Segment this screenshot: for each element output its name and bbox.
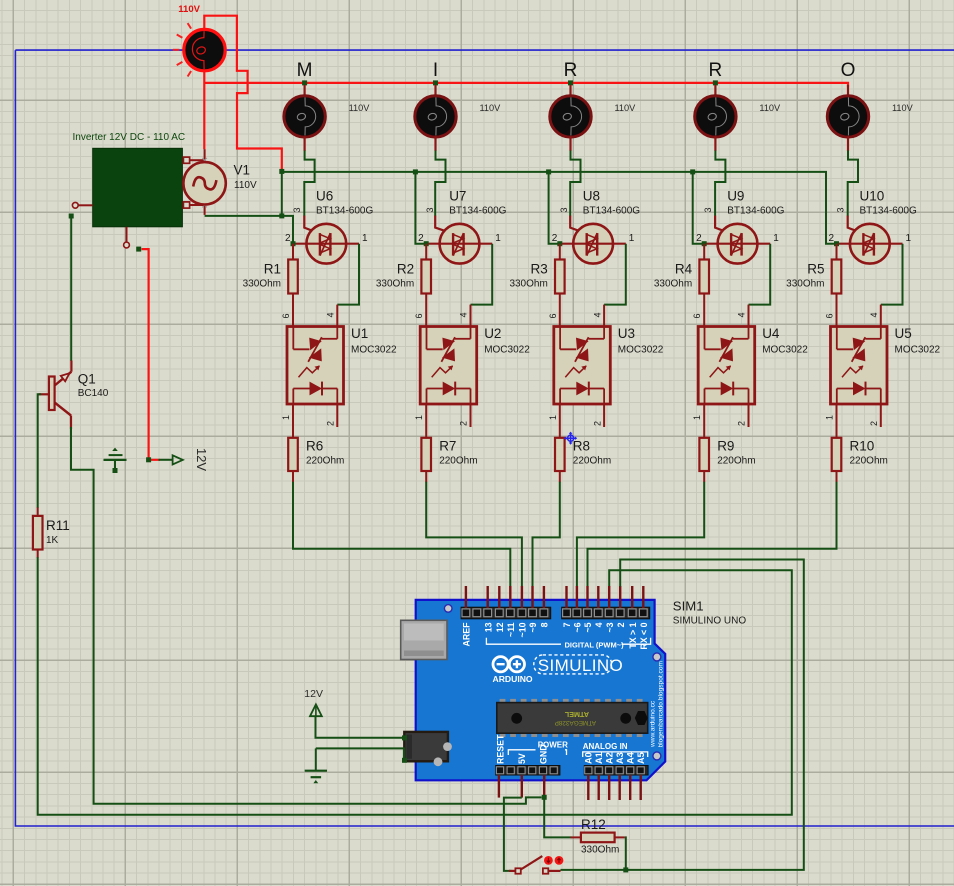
svg-text:220Ohm: 220Ohm [573, 456, 611, 467]
resistor R1 330Ohm [292, 244, 294, 260]
U4 pin4 lead [748, 305, 750, 327]
svg-text:R: R [709, 60, 723, 81]
svg-text:SIM1: SIM1 [673, 599, 704, 614]
optocoupler U1 MOC3022 [287, 327, 344, 405]
svg-text:330Ohm: 330Ohm [654, 279, 692, 290]
svg-text:3: 3 [559, 207, 569, 212]
svg-text:330Ohm: 330Ohm [376, 279, 414, 290]
svg-text:R8: R8 [573, 439, 590, 454]
V1 pin x-markers [202, 158, 207, 208]
junction GND/power rail [542, 795, 547, 800]
usb connector [401, 620, 447, 659]
svg-text:4: 4 [869, 312, 879, 317]
analog header [584, 766, 648, 776]
svg-text:ARDUINO: ARDUINO [493, 674, 533, 684]
wire: U10 pin1 to U5 pin4 [881, 244, 903, 305]
arduino board SIM1 outline [416, 600, 666, 780]
svg-text:R6: R6 [306, 439, 323, 454]
label DIGITAL (PWM~) [486, 638, 650, 644]
svg-text:330Ohm: 330Ohm [581, 845, 619, 856]
U2 pin2 stub [470, 404, 472, 427]
svg-text:12: 12 [495, 622, 505, 632]
wire red: 110V AC bus [204, 83, 848, 88]
resistor R3 330Ohm [559, 244, 561, 260]
wire: R6 to Arduino digital pin [293, 482, 510, 587]
svg-text:www.arduino.cc: www.arduino.cc [649, 700, 656, 748]
lamp R bottom lead [569, 137, 571, 152]
svg-text:330Ohm: 330Ohm [509, 279, 547, 290]
svg-text:1K: 1K [46, 535, 59, 546]
svg-text:R: R [564, 60, 578, 81]
svg-text:220Ohm: 220Ohm [850, 456, 888, 467]
analog pin stubs [587, 775, 589, 800]
wire: R7 to Arduino digital pin [426, 482, 522, 587]
svg-text:2: 2 [869, 421, 879, 426]
svg-text:4: 4 [459, 312, 469, 317]
svg-text:2: 2 [616, 622, 626, 627]
svg-text:U7: U7 [449, 189, 466, 204]
wire: Q1 base to R11 [38, 394, 41, 508]
lamp R (110V) [695, 96, 736, 137]
wire: 12V to jack [316, 716, 403, 738]
junction U7 pin2 / R2 [424, 241, 429, 246]
wire: R8 to Arduino digital pin [533, 482, 560, 587]
svg-text:SIMULINO: SIMULINO [538, 656, 623, 675]
svg-text:MOC3022: MOC3022 [895, 345, 941, 356]
svg-text:A0: A0 [584, 752, 594, 764]
wire red: inverter 12V feed [142, 249, 161, 460]
svg-text:3: 3 [703, 207, 713, 212]
ground symbol (arduino supply) [315, 748, 317, 770]
svg-text:220Ohm: 220Ohm [439, 456, 477, 467]
wire red: lamp L1 bottom to AC bus / V1 [203, 69, 205, 149]
junction gate bus tap ch4 [690, 169, 695, 174]
wire: gate bus tap to U9 pin2 [693, 172, 705, 244]
wire: U6 pin1 to U1 pin4 [337, 244, 359, 305]
power terminal 12V (arduino) [310, 704, 322, 716]
lamp I (110V) [415, 96, 456, 137]
U2 pin4 lead [470, 305, 472, 327]
svg-text:6: 6 [825, 313, 835, 318]
svg-text:2: 2 [418, 233, 424, 244]
svg-text:330Ohm: 330Ohm [786, 279, 824, 290]
svg-text:~3: ~3 [605, 622, 615, 632]
wire: ground to jack pin2 [316, 748, 404, 759]
wire: R9 to Arduino digital pin [577, 482, 704, 587]
svg-text:2: 2 [459, 421, 469, 426]
svg-text:220Ohm: 220Ohm [306, 456, 344, 467]
lamp R bottom lead [714, 137, 716, 152]
lamp I top lead [434, 85, 436, 96]
resistor R6 220Ohm [292, 404, 294, 438]
V1 AC source (110V) [183, 162, 225, 204]
svg-text:110V: 110V [349, 103, 371, 113]
digital header left (AREF..8) [461, 607, 551, 619]
cursor crosshair marker [564, 432, 577, 445]
svg-text:BC140: BC140 [78, 388, 109, 399]
lamp O (110V) [827, 96, 868, 137]
resistor R8 220Ohm [559, 404, 561, 438]
lamp R (110V) [550, 96, 591, 137]
svg-text:R1: R1 [264, 262, 281, 277]
resistor R9 220Ohm [703, 404, 705, 438]
svg-text:V1: V1 [234, 163, 251, 178]
svg-text:ANALOG IN: ANALOG IN [583, 742, 628, 751]
svg-text:4: 4 [594, 622, 604, 627]
svg-text:MOC3022: MOC3022 [351, 345, 397, 356]
svg-text:GND: GND [539, 744, 549, 764]
wire: U9 pin1 to U4 pin4 [749, 244, 771, 305]
svg-text:AREF: AREF [462, 622, 472, 647]
svg-text:U3: U3 [618, 326, 635, 341]
svg-text:110V: 110V [234, 180, 257, 191]
resistor R4 330Ohm [703, 244, 705, 260]
lamp R top lead [569, 85, 571, 96]
wire: lamp R to triac U8 pin3 (jog over gate bus) [570, 151, 580, 217]
svg-text:8: 8 [540, 622, 550, 627]
junction U10 pin2 / R5 [834, 241, 839, 246]
lamp O top lead [847, 85, 849, 96]
optocoupler U4 MOC3022 [698, 327, 755, 405]
svg-text:R3: R3 [531, 262, 548, 277]
junction AC bus / lamp M [302, 80, 307, 85]
svg-text:~11: ~11 [506, 622, 516, 637]
svg-text:2: 2 [828, 233, 834, 244]
resistor R11 1K [37, 508, 39, 516]
lamp R top lead [714, 85, 716, 96]
resistor R12 330Ohm (horizontal) [571, 836, 581, 838]
svg-text:~5: ~5 [583, 622, 593, 632]
svg-text:O: O [841, 60, 856, 81]
svg-text:220Ohm: 220Ohm [717, 456, 755, 467]
svg-text:M: M [297, 60, 313, 81]
svg-text:DIGITAL (PWM~): DIGITAL (PWM~) [565, 640, 625, 649]
switch SW1 [509, 870, 515, 872]
wire: gate bus tap to U8 pin2 [549, 172, 560, 244]
label ANALOG IN + bracket [583, 752, 648, 757]
svg-text:~6: ~6 [573, 622, 583, 632]
inverter output pin squares to V1 [183, 157, 189, 163]
resistor R2 330Ohm [425, 244, 427, 260]
svg-text:U2: U2 [484, 326, 501, 341]
jack terminal squares [402, 735, 407, 740]
svg-text:U4: U4 [762, 326, 780, 341]
wire: GND rail to R12 [544, 797, 571, 837]
wire: R11 bottom rail [38, 557, 792, 814]
triac U9 BT134-600G [704, 224, 770, 264]
wire: gate bus tap to U7 pin2 [415, 172, 426, 244]
svg-text:ATMEGA328P: ATMEGA328P [555, 719, 596, 726]
lamp L1 (lit, 110V) [184, 29, 225, 70]
svg-text:BT134-600G: BT134-600G [316, 206, 373, 217]
svg-text:BT134-600G: BT134-600G [449, 206, 506, 217]
wire: lamp R to triac U9 pin3 (jog over gate bus) [715, 151, 725, 217]
svg-text:6: 6 [281, 313, 291, 318]
digital pin stubs [465, 586, 467, 608]
wire red: lamp L1 top loop to V1 feed [204, 16, 281, 170]
lamp M bottom lead [304, 137, 306, 152]
U3 pin2 stub [603, 404, 605, 427]
inverter left pin (unconnected circle) [78, 204, 93, 206]
arduino mounting hole right-top [653, 653, 661, 661]
wire: V1 bottom to gate-bus riser [205, 171, 282, 216]
svg-text:12V: 12V [194, 448, 209, 471]
junction AC bus / lamp R [568, 80, 573, 85]
inverter bottom pin (unconnected circle) [126, 227, 128, 242]
svg-text:1: 1 [825, 415, 835, 420]
dc supply symbol (inverted ground) [112, 448, 118, 451]
svg-text:~9: ~9 [528, 622, 538, 632]
resistor R5 330Ohm [836, 244, 838, 260]
svg-text:R4: R4 [675, 262, 693, 277]
svg-text:3: 3 [292, 207, 302, 212]
junction gate bus head [279, 169, 284, 174]
triac U9 pin3 gate lead [715, 216, 731, 234]
U3 pin4 lead [603, 305, 605, 327]
SIMULINO badge [534, 655, 612, 674]
svg-text:1: 1 [362, 233, 368, 244]
svg-text:12V: 12V [304, 688, 323, 700]
wire: digital pin2 net to switch [561, 560, 804, 870]
svg-text:R12: R12 [581, 817, 606, 832]
svg-text:2: 2 [285, 233, 291, 244]
wire: lamp I to triac U7 pin3 (jog over gate bus) [435, 151, 445, 217]
svg-text:A3: A3 [615, 752, 625, 764]
optocoupler U5 MOC3022 [831, 327, 888, 405]
triac U10 pin3 gate lead [848, 216, 864, 234]
svg-text:3: 3 [836, 207, 846, 212]
svg-text:1: 1 [414, 415, 424, 420]
transistor Q1 BC140 [49, 377, 55, 411]
junction V1/gate riser [279, 213, 284, 218]
junction AC bus / lamp R [713, 80, 718, 85]
U1 pin2 stub [336, 404, 338, 427]
svg-text:2: 2 [326, 421, 336, 426]
svg-text:A4: A4 [625, 751, 635, 764]
arduino mounting hole top-left [444, 605, 452, 613]
svg-text:1: 1 [629, 233, 635, 244]
wire: 5V to switch [504, 798, 522, 871]
U5 pin2 stub [880, 404, 882, 427]
junction R12/switch net [623, 867, 628, 872]
svg-text:RX < 0: RX < 0 [639, 622, 649, 649]
svg-text:5V: 5V [517, 753, 527, 764]
svg-text:MOC3022: MOC3022 [618, 345, 664, 356]
svg-text:BT134-600G: BT134-600G [860, 206, 917, 217]
svg-text:1: 1 [906, 233, 912, 244]
power terminal 12V (left) [146, 457, 151, 462]
junction AC bus / lamp I [433, 80, 438, 85]
svg-text:330Ohm: 330Ohm [243, 279, 281, 290]
svg-text:6: 6 [548, 313, 558, 318]
svg-text:R11: R11 [46, 518, 70, 533]
resistor R10 220Ohm [836, 404, 838, 438]
optocoupler U3 MOC3022 [554, 327, 611, 405]
svg-text:R5: R5 [807, 262, 824, 277]
svg-text:1: 1 [692, 415, 702, 420]
svg-text:ATMEL: ATMEL [564, 710, 589, 719]
svg-text:110V: 110V [178, 4, 200, 15]
svg-text:Q1: Q1 [78, 372, 96, 387]
svg-text:7: 7 [562, 622, 572, 627]
svg-text:R9: R9 [717, 439, 734, 454]
svg-text:3: 3 [425, 207, 435, 212]
triac U6 pin3 gate lead [304, 216, 320, 234]
power jack [404, 732, 448, 761]
svg-text:MOC3022: MOC3022 [484, 345, 530, 356]
lamp O bottom lead [847, 137, 849, 152]
svg-text:A2: A2 [604, 752, 614, 764]
svg-text:6: 6 [414, 313, 424, 318]
svg-text:U8: U8 [583, 189, 600, 204]
resistor R7 220Ohm [425, 404, 427, 438]
wire: R12 to switch net [624, 837, 627, 870]
wire: lamp O to triac U10 pin3 (jog over gate bus) [848, 151, 858, 217]
svg-text:110V: 110V [480, 103, 502, 113]
svg-text:2: 2 [552, 233, 558, 244]
svg-text:110V: 110V [615, 103, 637, 113]
power header [496, 766, 560, 776]
lamp M (110V) [284, 96, 325, 137]
junction U6 pin2 / R1 [291, 241, 296, 246]
svg-text:4: 4 [592, 312, 602, 317]
junction U8 pin2 / R3 [557, 241, 562, 246]
svg-text:110V: 110V [759, 103, 781, 113]
triac U6 BT134-600G [293, 224, 359, 264]
svg-text:13: 13 [483, 622, 493, 632]
svg-text:R10: R10 [850, 439, 875, 454]
junction U9 pin2 / R4 [702, 241, 707, 246]
arduino logo [493, 657, 508, 672]
svg-text:SIMULINO UNO: SIMULINO UNO [673, 615, 747, 626]
svg-text:Inverter 12V DC - 110 AC: Inverter 12V DC - 110 AC [73, 132, 186, 143]
svg-text:1: 1 [495, 233, 501, 244]
svg-text:U10: U10 [860, 189, 885, 204]
svg-text:BT134-600G: BT134-600G [727, 206, 784, 217]
switch toggle arrows (red) [545, 857, 552, 864]
svg-text:R7: R7 [439, 439, 456, 454]
triac U8 BT134-600G [560, 224, 626, 264]
wire: R10 to Arduino digital pin [588, 482, 837, 587]
lamp I bottom lead [434, 137, 436, 152]
junction gate bus tap ch3 [546, 169, 551, 174]
svg-text:R2: R2 [397, 262, 414, 277]
svg-text:4: 4 [326, 312, 336, 317]
wire: triac gate bus [282, 172, 837, 244]
U5 pin4 lead [880, 305, 882, 327]
triac U8 pin3 gate lead [570, 216, 587, 234]
V1 pin leads [204, 149, 206, 163]
svg-text:BT134-600G: BT134-600G [583, 206, 640, 217]
svg-text:A5: A5 [636, 752, 646, 764]
optocoupler U2 MOC3022 [420, 327, 477, 405]
svg-text:U1: U1 [351, 326, 368, 341]
wire: Q1 collector to Arduino GND rail [71, 427, 542, 804]
chip text ATMEGA328P / ATMEL (rotated) [555, 710, 596, 726]
svg-text:2: 2 [592, 421, 602, 426]
svg-text:A1: A1 [594, 752, 604, 764]
lamp M top lead [304, 85, 306, 96]
svg-text:110V: 110V [892, 103, 914, 113]
triac U7 BT134-600G [426, 224, 492, 264]
svg-text:RESET: RESET [495, 734, 505, 764]
label POWER + bracket [508, 750, 566, 755]
svg-text:U5: U5 [895, 326, 912, 341]
arduino mounting hole right-bottom [653, 752, 661, 760]
svg-text:1: 1 [281, 415, 291, 420]
svg-text:MOC3022: MOC3022 [762, 345, 808, 356]
svg-text:2: 2 [696, 233, 702, 244]
svg-text:I: I [433, 60, 438, 81]
U4 pin2 stub [748, 404, 750, 427]
U1 pin4 lead [336, 305, 338, 327]
wire: U8 pin1 to U3 pin4 [604, 244, 626, 305]
svg-text:1: 1 [773, 233, 779, 244]
wire: U7 pin1 to U2 pin4 [471, 244, 493, 305]
wire: Q1 emitter to inverter input [69, 214, 74, 219]
wire: lamp M to triac U6 pin3 (jog over gate bus) [304, 151, 314, 217]
digital header right (7..RX0) [562, 607, 650, 619]
svg-text:1: 1 [548, 415, 558, 420]
svg-text:4: 4 [737, 312, 747, 317]
svg-text:~10: ~10 [518, 622, 528, 637]
atmega328p chip [500, 699, 506, 703]
triac U10 BT134-600G [837, 224, 903, 264]
svg-text:blogembarcado.blogspot.com: blogembarcado.blogspot.com [657, 660, 664, 747]
svg-text:U9: U9 [727, 189, 744, 204]
svg-text:U6: U6 [316, 189, 333, 204]
power pin stubs [498, 775, 500, 798]
wire: riser to U6 pin2 [282, 216, 293, 242]
junction gate bus tap ch2 [413, 169, 418, 174]
svg-text:6: 6 [692, 313, 702, 318]
svg-text:2: 2 [737, 421, 747, 426]
triac U7 pin3 gate lead [435, 216, 453, 234]
inverter box (12V DC to 110V AC) [93, 148, 183, 227]
